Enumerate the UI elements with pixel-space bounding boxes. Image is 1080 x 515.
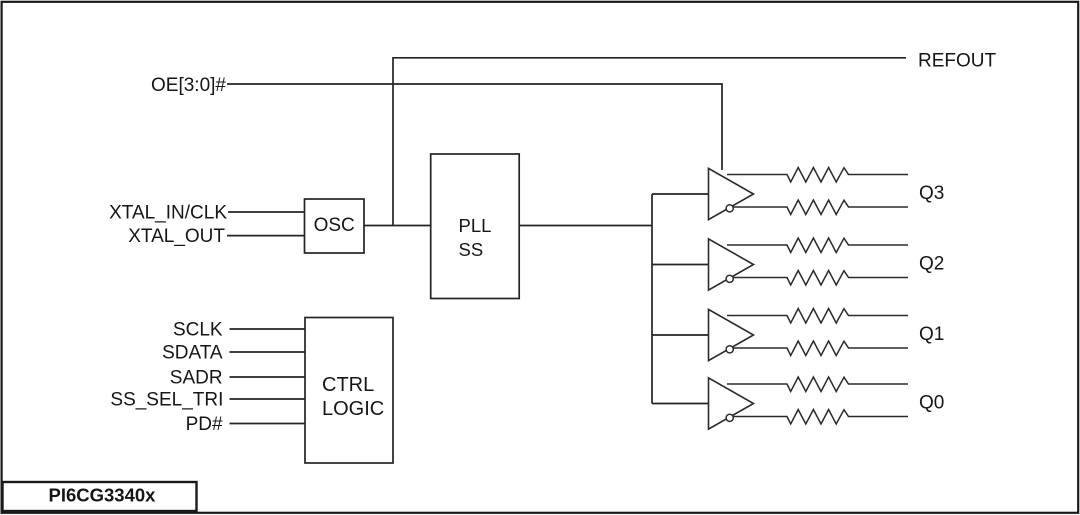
wire + series resistor, Q1 complementary output [733,341,908,356]
svg-text:SDATA: SDATA [162,342,223,363]
svg-text:SCLK: SCLK [173,319,223,340]
wire PLL output to buffer bus [519,225,652,227]
svg-text:REFOUT: REFOUT [918,51,997,72]
wire + series resistor, Q3 complementary output [733,200,908,215]
svg-text:Q2: Q2 [919,254,944,275]
wire bus tap to buffer Q1 input [652,334,709,336]
inverting bubble on Q3 complementary output [726,205,733,212]
svg-text:Q1: Q1 [919,324,944,345]
svg-text:PI6CG3340x: PI6CG3340x [49,485,157,506]
block OSC [305,199,365,253]
wire XTAL_OUT to OSC [227,235,305,237]
wire XTAL_IN/CLK to OSC [228,211,305,213]
inverting bubble on Q1 complementary output [726,346,733,353]
output buffer triangle for Q1 [709,309,754,360]
svg-text:LOGIC: LOGIC [322,398,384,420]
block CTRL LOGIC [305,318,393,464]
wire SADR to CTRL LOGIC [230,376,306,378]
wire bus tap to buffer Q0 input [652,403,709,405]
svg-text:XTAL_IN/CLK: XTAL_IN/CLK [109,202,227,223]
block PLL SS [431,154,520,299]
svg-text:PD#: PD# [186,414,223,435]
svg-text:SADR: SADR [170,367,223,388]
output buffer triangle for Q3 [709,168,754,219]
wire SDATA to CTRL LOGIC [230,351,306,353]
wire SCLK to CTRL LOGIC [230,328,306,330]
wire + series resistor, Q3 true output [727,168,908,183]
svg-text:Q3: Q3 [919,183,944,204]
inverting bubble on Q0 complementary output [726,414,733,421]
output buffer triangle for Q2 [709,239,754,290]
node buffer input bus (vertical) [651,194,653,404]
svg-text:OE[3:0]#: OE[3:0]# [151,75,226,96]
svg-text:OSC: OSC [314,215,355,236]
svg-text:SS_SEL_TRI: SS_SEL_TRI [110,389,223,410]
inverting bubble on Q2 complementary output [726,275,733,282]
part number label box PI6CG3340x [3,482,197,511]
wire bus tap to buffer Q3 input [652,193,709,195]
wire + series resistor, Q2 complementary output [733,271,908,286]
wire OSC output to PLL input [364,225,431,227]
wire OE[3:0]# to output buffers [227,84,722,170]
wire + series resistor, Q2 true output [727,238,908,253]
svg-text:XTAL_OUT: XTAL_OUT [128,226,225,247]
node REFOUT net (vertical tap from OSC output up and across to REFOUT) [393,58,906,226]
svg-text:SS: SS [459,239,484,260]
svg-text:CTRL: CTRL [322,374,374,396]
wire PD# to CTRL LOGIC [230,423,306,425]
wire SS_SEL_TRI to CTRL LOGIC [230,398,306,400]
output buffer triangle for Q0 [709,378,754,429]
svg-text:PLL: PLL [459,215,492,236]
wire bus tap to buffer Q2 input [652,264,709,266]
svg-text:Q0: Q0 [919,393,944,414]
wire + series resistor, Q0 complementary output [733,410,908,425]
wire + series resistor, Q0 true output [727,377,908,392]
wire + series resistor, Q1 true output [727,309,908,324]
